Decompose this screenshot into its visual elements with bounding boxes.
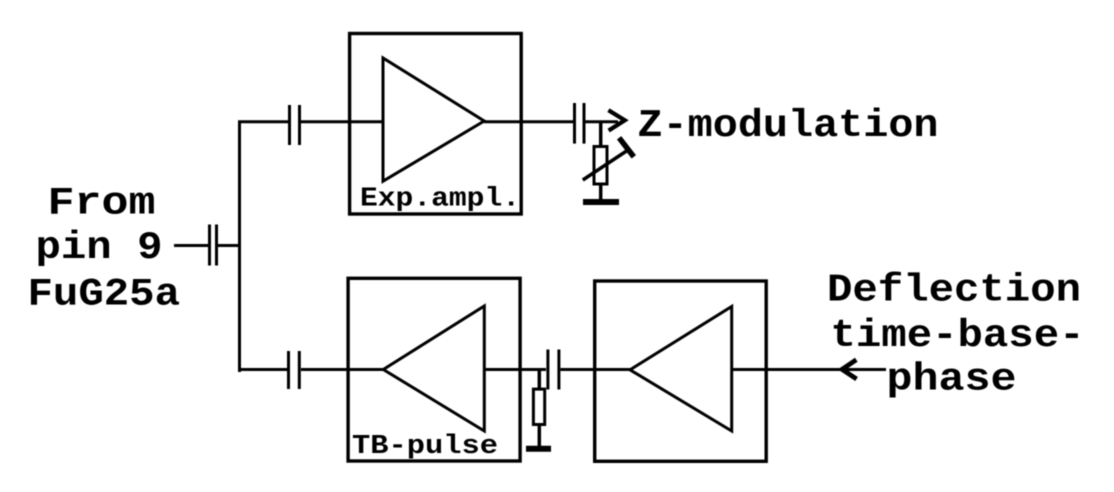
svg-text:From: From [48,182,156,226]
svg-text:TB-pulse: TB-pulse [352,432,498,462]
svg-text:Deflection: Deflection [827,269,1081,313]
svg-text:Exp.ampl.: Exp.ampl. [360,185,520,215]
svg-text:FuG25a: FuG25a [28,273,181,317]
svg-text:Z-modulation: Z-modulation [638,104,939,148]
svg-text:pin 9: pin 9 [36,226,163,270]
svg-text:time-base-: time-base- [831,314,1085,358]
svg-text:phase: phase [887,357,1017,401]
